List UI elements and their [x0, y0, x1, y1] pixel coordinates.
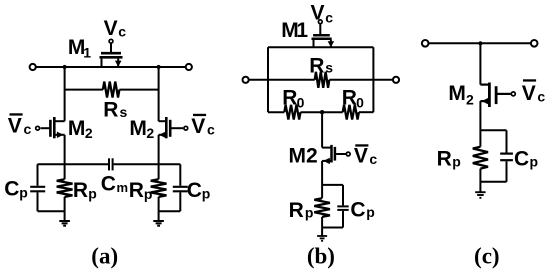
svg-text:R: R [282, 87, 297, 110]
svg-text:(c): (c) [474, 244, 500, 269]
svg-text:2: 2 [146, 125, 154, 141]
svg-text:p: p [19, 185, 28, 201]
capacitor Cm (a) [109, 158, 113, 170]
resistor Rs (b) [249, 79, 393, 81]
label M2 right (a) [129, 117, 154, 141]
svg-text:C: C [187, 179, 202, 202]
svg-text:c: c [369, 151, 377, 167]
wire: rail M2 to RC (c) [479, 101, 481, 147]
value label Rp left (a) [73, 179, 97, 202]
svg-text:R: R [103, 99, 118, 122]
node A junction dot left (a) [63, 65, 67, 69]
label M1 (b) [281, 19, 308, 42]
svg-text:2: 2 [85, 125, 93, 141]
svg-text:p: p [366, 204, 375, 220]
wire: bottom wire right (a) [159, 210, 181, 212]
value label Vc (b) [311, 1, 334, 25]
svg-text:(b): (b) [307, 244, 335, 269]
svg-text:c: c [118, 24, 126, 40]
svg-text:m: m [117, 180, 129, 195]
resistor Rp right (a) [151, 179, 167, 197]
svg-text:c: c [325, 9, 333, 25]
value label Rs (b) [309, 54, 333, 77]
value label R0 right (b) [342, 87, 364, 111]
wire: RC row left (a) [38, 163, 109, 165]
svg-text:M: M [68, 117, 86, 140]
svg-text:p: p [88, 185, 97, 201]
value label Cm (a) [101, 172, 128, 195]
svg-text:V: V [104, 17, 118, 40]
node OUT terminal (b) [393, 77, 399, 83]
svg-text:p: p [530, 154, 539, 170]
wire: rail to M2 (b) [321, 112, 323, 147]
value label Cp left (a) [4, 178, 28, 201]
value label Cp right (a) [187, 179, 211, 202]
value label Cp (b) [350, 198, 374, 221]
wire: right rail (b) [372, 47, 374, 112]
transistor M2 left (a) [41, 117, 65, 138]
transistor M2 (b) [322, 145, 346, 164]
svg-text:V: V [311, 1, 325, 24]
node IN terminal (a) [30, 64, 36, 70]
wire: bottom wire (c) [480, 181, 506, 183]
svg-text:R: R [73, 179, 88, 202]
svg-text:V: V [522, 82, 536, 105]
resistor R0 right (b) [343, 105, 359, 120]
value label Vc-bar left (a) [8, 113, 32, 137]
svg-text:R: R [289, 199, 304, 222]
wire: bottom wire (b) [322, 227, 343, 229]
node center junction dot (b) [320, 110, 324, 114]
node IN terminal (c) [422, 40, 429, 47]
node B junction dot right (a) [157, 65, 161, 69]
svg-text:R: R [437, 147, 452, 170]
ground [59, 211, 70, 226]
label M1 (a) [68, 36, 91, 60]
svg-text:C: C [350, 198, 365, 221]
value label Vc-bar (c) [522, 79, 546, 105]
ground [317, 228, 327, 241]
svg-text:s: s [120, 104, 128, 120]
resistor Rp (c) [473, 147, 488, 169]
svg-text:0: 0 [356, 94, 364, 110]
capacitor Cp right (a) [173, 164, 188, 211]
node OUT terminal (a) [186, 64, 192, 70]
label M2 left (a) [68, 117, 93, 141]
svg-text:p: p [305, 204, 314, 220]
svg-text:c: c [537, 88, 545, 104]
capacitor Cp (b) [337, 185, 348, 228]
svg-text:p: p [452, 154, 461, 170]
node IN terminal (b) [243, 77, 249, 83]
wire: rail to M2 (c) [479, 43, 481, 84]
value label Rp (b) [289, 199, 314, 222]
wire: main wire (a) [36, 66, 186, 68]
label Vc gate terminal (a) [109, 39, 113, 43]
value label Cp (c) [514, 147, 538, 170]
value label Rp right (a) [129, 179, 153, 202]
transistor M2 right (a) [159, 117, 183, 138]
wire: RC top wire (b) [322, 184, 343, 186]
svg-text:R: R [129, 179, 144, 202]
svg-text:R: R [342, 87, 357, 110]
svg-text:2: 2 [466, 92, 474, 108]
node OUT terminal (c) [531, 40, 538, 47]
svg-text:V: V [354, 144, 368, 167]
transistor M1 (a) [100, 44, 123, 67]
svg-text:(a): (a) [91, 244, 118, 269]
wire: bottom wire left (a) [38, 210, 65, 212]
label M2 (c) [448, 82, 474, 108]
ground [153, 211, 164, 226]
svg-text:1: 1 [296, 19, 308, 42]
node junction dot (c) [478, 41, 482, 45]
svg-text:p: p [202, 185, 211, 201]
resistor R0 left (b) [268, 111, 373, 113]
value label Rs (a) [103, 99, 127, 122]
transistor M1 (b) [312, 24, 335, 47]
svg-text:0: 0 [297, 95, 305, 111]
wire: RC row right (a) [114, 163, 181, 165]
svg-text:M2: M2 [289, 145, 318, 168]
svg-text:s: s [325, 60, 333, 76]
svg-text:c: c [24, 121, 32, 137]
svg-text:1: 1 [83, 44, 91, 60]
svg-text:M: M [448, 82, 466, 105]
wire: left rail (b) [267, 47, 269, 112]
capacitor Cp (c) [500, 130, 513, 182]
wire: left rail lower (a) [64, 135, 66, 180]
resistor Rp left (a) [57, 179, 73, 197]
svg-text:c: c [207, 122, 215, 138]
wire: RC top wire (c) [480, 129, 506, 131]
transistor M2 (c) [480, 83, 510, 108]
value label Vc (a) [104, 17, 127, 40]
svg-text:V: V [8, 115, 22, 138]
wire: right rail lower (a) [158, 135, 160, 180]
wire: right rail upper (a) [158, 67, 160, 121]
svg-text:C: C [4, 178, 19, 201]
value label Vc-bar right (a) [191, 114, 215, 138]
capacitor Cp left (a) [30, 164, 45, 211]
svg-text:p: p [144, 186, 153, 202]
wire: left rail upper (a) [64, 67, 66, 121]
value label Vc-bar (b) [354, 144, 378, 167]
svg-text:M: M [129, 117, 147, 140]
ground [475, 182, 485, 198]
svg-text:V: V [191, 115, 205, 138]
svg-text:C: C [514, 147, 529, 170]
resistor Rp (b) [314, 198, 330, 217]
resistor Rs (a) [65, 89, 159, 91]
value label Rp (c) [437, 147, 461, 170]
svg-text:C: C [101, 172, 116, 195]
wire: rail M2 to RC (b) [321, 161, 323, 198]
wire: top wire (c) [429, 42, 531, 44]
svg-text:R: R [309, 54, 324, 77]
wire: top wire (b) [268, 46, 373, 48]
value label R0 left (b) [282, 87, 304, 111]
